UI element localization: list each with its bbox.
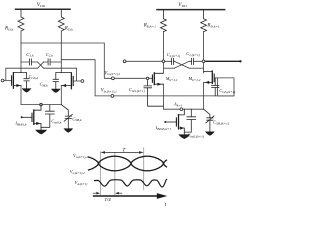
wire source k,2 — [60, 86, 62, 105]
capacitor C_2,(k+1) — [172, 58, 174, 64]
svg-text:RD,k+1: RD,k+1 — [143, 24, 156, 30]
svg-text:Vo,(k+1),2: Vo,(k+1),2 — [70, 169, 85, 176]
node I_BIAS,k+1 input dot — [164, 121, 166, 123]
capacitor C_GS,(k+1) right — [212, 78, 219, 96]
svg-text:Vin,(k+1),1: Vin,(k+1),1 — [104, 71, 120, 77]
guide line T right — [143, 148, 145, 190]
capacitor C_1,(k+1) — [192, 58, 194, 64]
svg-text:Vin,(k+1),2: Vin,(k+1),2 — [101, 89, 117, 95]
capacitor C_M,k — [53, 73, 61, 89]
wire X to drain k+1,2 — [189, 67, 203, 69]
wire gate input row k+1 — [126, 60, 204, 62]
resistor R_D,k+1 left — [160, 10, 166, 32]
capacitor C_tail,k — [41, 105, 54, 128]
wire source k+1,1 — [162, 84, 164, 109]
transistor M_k,2 — [61, 73, 73, 89]
ground under C_SB,k+1 — [205, 132, 215, 136]
terminal V_in,(k+1),2 — [111, 95, 114, 98]
wire VDD rail stage k+1 — [157, 9, 225, 11]
svg-text:IBIAS,k+1: IBIAS,k+1 — [155, 125, 171, 132]
resistor R_D,k left — [18, 9, 24, 31]
svg-text:Ctail,(k+1): Ctail,(k+1) — [188, 133, 205, 140]
terminal input left k+1 — [123, 60, 126, 63]
resistor R_D,k right — [58, 9, 64, 31]
capacitor C_1,k — [29, 59, 31, 65]
guide line T/4 right — [114, 153, 116, 196]
ground under M_tail,k+1 — [178, 134, 190, 139]
svg-text:T/4: T/4 — [105, 197, 112, 202]
transistor M_k+1,1 — [152, 73, 163, 86]
node drain k+1,1 junction — [162, 60, 165, 63]
svg-text:CSB,k: CSB,k — [72, 116, 82, 123]
waveform V_o,(k+1),2 — [89, 156, 167, 171]
terminal output right k+1 — [239, 60, 241, 62]
svg-text:VA,(k+1): VA,(k+1) — [75, 180, 88, 187]
svg-text:Ctail,k: Ctail,k — [51, 119, 61, 126]
transistor M_k+1,2 — [204, 71, 215, 84]
ground under M_tail,k — [35, 130, 47, 135]
node drain k+1,2 junction — [202, 60, 205, 63]
svg-text:CSB,(k+1): CSB,(k+1) — [213, 119, 229, 126]
wire VDD rail stage k — [16, 8, 71, 10]
slash of C_SB,k+1 — [206, 116, 214, 123]
wire drain branch k,1 — [20, 31, 22, 73]
svg-text:RD,k: RD,k — [64, 26, 73, 32]
ground under C_SB,k — [64, 128, 74, 132]
wire coupling row left stage — [21, 61, 61, 63]
node A_k+1 junction — [180, 108, 183, 111]
wire source k,1 — [20, 86, 22, 105]
capacitor C_GS,k — [21, 73, 29, 89]
svg-text:Ak+1: Ak+1 — [173, 101, 183, 107]
wire gate k,1 — [4, 68, 38, 80]
waveform V_A,(k+1) — [95, 179, 167, 187]
slash of C_SB,k — [64, 114, 72, 121]
terminal gate k,2 — [81, 80, 84, 83]
svg-text:VDD: VDD — [37, 2, 46, 8]
wire gate k+1,2 loop — [214, 78, 234, 96]
wire cross-couple X stage k+1 — [174, 61, 189, 68]
svg-text:C1,k: C1,k — [26, 52, 34, 59]
capacitor C_2,k — [48, 59, 50, 65]
capacitor C_tail,k+1 — [184, 109, 195, 132]
node I_BIAS,k input dot — [21, 116, 23, 118]
svg-text:CGS,(k+1): CGS,(k+1) — [129, 87, 146, 94]
svg-text:Vo,(k+1),1: Vo,(k+1),1 — [73, 153, 88, 160]
svg-text:CGS,k: CGS,k — [29, 74, 39, 81]
ground under C_M,k — [51, 89, 61, 93]
capacitor C_SB,k+1 parasitic — [204, 109, 213, 131]
svg-text:C2,(k+1): C2,(k+1) — [167, 52, 181, 59]
svg-text:C1,(k+1): C1,(k+1) — [186, 51, 200, 58]
wire gate k,2 — [44, 68, 81, 81]
ground under C_GS,k — [22, 88, 32, 92]
transistor M_tail,k — [22, 105, 41, 130]
dimension T/4 arrows — [93, 192, 122, 195]
wire X to drain k+1,1 — [163, 67, 174, 69]
dimension T arrow — [101, 151, 144, 154]
wire cross-couple X stage k — [38, 62, 44, 68]
svg-text:RD,k+1: RD,k+1 — [206, 24, 219, 30]
capacitor C_GS,(k+1) left — [144, 80, 164, 107]
guide line T left — [99, 152, 101, 196]
wire drain k,2 to injection 2 — [61, 60, 234, 96]
wire drain branch k+1,2 — [203, 32, 205, 73]
resistor R_D,k+1 right — [201, 10, 207, 32]
svg-text:IBIAS,k: IBIAS,k — [14, 121, 27, 128]
node tail k junction — [40, 103, 43, 106]
terminal gate k,1 — [1, 79, 4, 82]
svg-text:C2,k: C2,k — [46, 52, 54, 59]
wire drain branch k+1,1 — [162, 32, 164, 73]
wire drain k,1 to injection 1 — [21, 43, 152, 78]
wire drain branch k,2 — [60, 31, 62, 73]
node on injection wire 1 — [146, 77, 148, 79]
svg-text:t: t — [165, 202, 167, 208]
svg-text:Mk+1,2: Mk+1,2 — [188, 76, 201, 83]
svg-text:VDD: VDD — [178, 2, 187, 8]
transistor M_k,1 — [12, 73, 21, 89]
svg-text:RD,k: RD,k — [4, 26, 13, 32]
time axis arrow — [94, 195, 158, 197]
wire tail line stage k+1 — [163, 108, 203, 110]
wire tail line stage k — [21, 104, 61, 106]
svg-text:CM,k: CM,k — [40, 81, 49, 88]
waveform V_o,(k+1),1 — [89, 156, 167, 171]
terminal V_in,(k+1),1 — [112, 77, 115, 80]
capacitor C_SB,k parasitic — [61, 105, 71, 129]
svg-text:CGS,(k+1): CGS,(k+1) — [219, 88, 236, 95]
svg-text:Mk+1,1: Mk+1,1 — [165, 76, 178, 83]
transistor M_tail,k+1 — [166, 109, 185, 134]
wire source k+1,2 — [203, 82, 205, 109]
